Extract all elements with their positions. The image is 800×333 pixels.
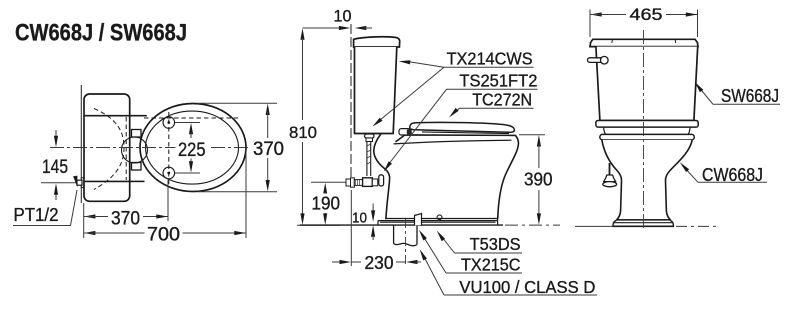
svg-text:10: 10 — [352, 210, 367, 227]
dim 390 text — [522, 169, 556, 189]
dim 230 line segments — [351, 261, 405, 263]
side seat edge line — [422, 132, 509, 134]
svg-text:390: 390 — [524, 170, 553, 190]
side supply extension line to wall — [311, 181, 346, 183]
front hanging chain and bolt cap tassel — [603, 163, 617, 187]
plan seat hinge plate top — [132, 130, 142, 138]
side tank lid — [354, 37, 400, 47]
label CW668J leader to bowl — [680, 162, 698, 182]
svg-text:230: 230 — [365, 253, 394, 273]
side tank body — [355, 47, 397, 134]
PT1/2 underline and leader — [13, 190, 77, 226]
label TS251FT2 text and underline — [447, 70, 538, 90]
svg-text:TX215C: TX215C — [461, 255, 521, 275]
PT1/2 leader arrow — [73, 176, 77, 188]
side base bolt cap — [437, 215, 442, 220]
dim 370 right top extension — [198, 102, 277, 104]
side base flange lines — [378, 219, 498, 226]
side drain socket flange — [415, 214, 422, 226]
dim 230 right arrow outside — [406, 260, 421, 264]
dim 230 left arrow outside — [332, 260, 351, 264]
label TX214CWS text and underline — [444, 48, 534, 68]
front tank lid ticks — [612, 39, 676, 43]
svg-text:370: 370 — [111, 209, 140, 230]
front tank body — [596, 47, 698, 121]
label VU100 leader to drain pipe — [420, 249, 444, 295]
plan wall line — [80, 85, 82, 203]
svg-text:TC272N: TC272N — [472, 89, 532, 109]
label SW668J leader to tank — [695, 82, 713, 104]
svg-text:PT1/2: PT1/2 — [14, 205, 59, 225]
plan flush valve circle — [122, 137, 148, 163]
label TX214CWS leader to tank edge — [399, 60, 444, 67]
svg-text:CW668J / SW668J: CW668J / SW668J — [15, 20, 187, 47]
svg-text:SW668J: SW668J — [721, 86, 779, 106]
dim 145 upper arrow — [54, 130, 58, 147]
label TX214CWS leader to tank bottom — [372, 67, 444, 126]
plan horizontal centerline (dash-dot) — [50, 147, 250, 149]
label TX215C leader to drain joint — [419, 230, 446, 273]
label SW668J text and underline — [713, 86, 780, 106]
front tank lid — [590, 39, 698, 46]
dim 370 bottom text — [109, 208, 143, 230]
plan seat lid outer oval — [140, 104, 246, 192]
side seat hinge boss — [399, 129, 412, 135]
svg-text:10: 10 — [334, 7, 352, 26]
dim 810 text — [287, 123, 320, 142]
plan seat hinge plate bottom — [132, 163, 142, 171]
dim 145 lower arrow — [54, 183, 58, 200]
dim 810 line top arrow — [300, 28, 304, 120]
front floor line under foot — [613, 225, 675, 227]
svg-text:VU100 / CLASS D: VU100 / CLASS D — [459, 277, 595, 297]
svg-text:145: 145 — [42, 157, 68, 178]
PT1/2 inlet fitting — [77, 178, 84, 188]
side drain centerline (dash-dot) — [405, 219, 407, 266]
front floor dash-dot right — [676, 225, 716, 227]
dim 230 left extension line — [350, 190, 352, 266]
front bowl body and pedestal — [602, 140, 692, 220]
dim 810 bottom extension line — [297, 224, 340, 226]
plan tank body top edge — [85, 115, 130, 117]
front centerline vertical (dash-dot) — [643, 30, 645, 231]
plan tank body right hidden edge (dashed) — [125, 117, 127, 180]
front flush handle — [588, 56, 609, 64]
dim 190 top arrow — [323, 183, 327, 195]
label TC272N text and underline — [460, 89, 534, 109]
plan hidden line under oval top (dashed) — [144, 117, 238, 119]
dim 370 right text — [251, 138, 287, 160]
svg-text:TX214CWS: TX214CWS — [447, 48, 533, 68]
label TC272N leader to seat lid — [449, 108, 460, 118]
svg-text:T53DS: T53DS — [470, 234, 521, 254]
dim 390 line and arrows — [537, 135, 541, 225]
plan hinge bolt circle bottom — [163, 167, 175, 179]
label TS251FT2 leader to stop valve — [384, 89, 447, 172]
dim 225 line and arrows — [189, 123, 193, 173]
dim 370 right line and arrows — [266, 104, 270, 192]
side stop valve assembly — [346, 175, 384, 187]
side bowl rim top and front outline — [396, 135, 518, 219]
svg-text:190: 190 — [312, 194, 341, 214]
dim 810 line bottom arrow — [300, 142, 304, 225]
dim 700 line and arrows — [84, 231, 246, 235]
dim 700 text — [145, 224, 183, 246]
label T53DS text and underline — [455, 234, 523, 254]
dim 370 right bottom extension — [198, 191, 277, 193]
dim 190 bottom arrow — [323, 213, 327, 225]
plan tank cavity hidden arc (dashed) — [94, 109, 124, 190]
side supply pipe vertical — [367, 142, 371, 177]
dim 10 bottom arrows — [371, 204, 375, 241]
side bowl back outline — [374, 135, 390, 219]
plan left extension line below tank — [83, 203, 85, 238]
dim 225 text — [176, 139, 209, 161]
side floor dash-dot continuation — [505, 224, 560, 226]
dim 370 bottom line and arrows — [84, 214, 168, 218]
svg-text:370: 370 — [253, 139, 284, 160]
side floor line — [300, 224, 503, 226]
label T53DS leader to flange — [437, 231, 455, 253]
dim 190 text — [309, 193, 343, 213]
front floor line left — [575, 225, 613, 227]
front dim 465 left extension — [589, 10, 591, 38]
dim 225 top extension line — [175, 122, 200, 124]
label TX215C text and underline — [446, 255, 522, 275]
side seat lid TC272N — [410, 122, 515, 132]
side wall line (dashed) — [350, 24, 352, 182]
svg-text:225: 225 — [178, 140, 206, 161]
plan hinge strip top edge — [130, 115, 147, 117]
front dim 465 right extension — [697, 10, 699, 38]
front pedestal foot middle line — [613, 222, 673, 224]
plan hinge bolt circle top — [163, 117, 175, 129]
plan right extension line below oval — [245, 150, 247, 238]
dim 390 top extension line — [519, 134, 545, 136]
plan tank lid outline — [84, 94, 130, 201]
front dim 465 line and arrows — [590, 12, 697, 16]
dim 10 top line left part with arrow — [303, 26, 351, 30]
svg-text:700: 700 — [147, 225, 180, 246]
front pedestal foot — [613, 220, 674, 226]
plan seat inner oval — [146, 111, 239, 184]
dim 10 top right arrow — [355, 26, 372, 30]
front tank bottom band — [596, 121, 698, 128]
plan hinge extension line below — [167, 180, 169, 221]
side bowl rim bottom line — [394, 140, 512, 144]
dim 230 text — [362, 253, 396, 273]
label CW668J text and underline — [698, 165, 767, 185]
plan tank body bottom edge — [85, 180, 130, 182]
dim 145 extension line — [41, 182, 77, 184]
dim 225 bottom extension line — [175, 172, 200, 174]
plan hinge dashed vertical line — [168, 112, 170, 184]
plan hinge strip bottom edge — [130, 180, 145, 182]
front bowl rim band — [600, 134, 695, 139]
svg-text:810: 810 — [289, 123, 317, 142]
side supply fitting under tank — [365, 134, 375, 142]
front bowl neck — [604, 127, 691, 134]
side drain pipe below floor — [394, 225, 417, 246]
label VU100 CLASS D text and underline — [444, 277, 597, 297]
svg-text:465: 465 — [630, 5, 663, 24]
svg-text:TS251FT2: TS251FT2 — [459, 70, 537, 90]
